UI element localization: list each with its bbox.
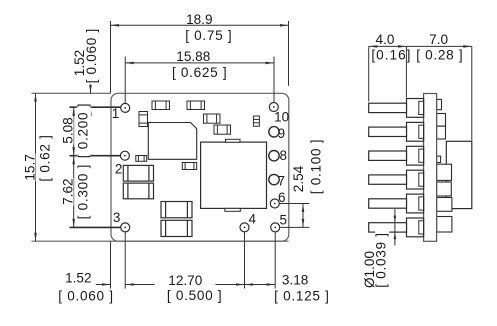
svg-text:7: 7: [277, 173, 285, 188]
svg-text:[ 0.625 ]: [ 0.625 ]: [172, 65, 227, 80]
svg-text:[ 0.100 ]: [ 0.100 ]: [309, 139, 324, 194]
svg-text:[ 0.75 ]: [ 0.75 ]: [185, 28, 232, 43]
svg-text:[ 0.62 ]: [ 0.62 ]: [38, 134, 53, 181]
svg-text:3.18: 3.18: [282, 273, 308, 288]
svg-text:1.52: 1.52: [65, 271, 91, 286]
svg-text:[ 0.039 ]: [ 0.039 ]: [374, 232, 389, 287]
svg-text:15.88: 15.88: [176, 49, 210, 64]
svg-text:2.54: 2.54: [291, 165, 306, 192]
svg-text:[0.16]: [0.16]: [371, 47, 411, 62]
svg-text:7.0: 7.0: [429, 32, 448, 47]
svg-text:[ 0.500 ]: [ 0.500 ]: [167, 288, 222, 303]
svg-text:[ 0.28 ]: [ 0.28 ]: [416, 47, 463, 62]
svg-text:3: 3: [113, 210, 121, 225]
svg-text:[ 0.060 ]: [ 0.060 ]: [84, 28, 99, 83]
svg-text:5.08: 5.08: [61, 117, 76, 143]
svg-text:4: 4: [249, 211, 257, 226]
svg-text:6: 6: [278, 190, 286, 205]
svg-text:[ 0.200 ]: [ 0.200 ]: [75, 103, 90, 158]
svg-text:5: 5: [280, 213, 288, 228]
svg-text:7.62: 7.62: [61, 178, 76, 204]
svg-text:2: 2: [115, 162, 123, 177]
svg-text:[ 0.125 ]: [ 0.125 ]: [274, 289, 329, 304]
svg-text:1: 1: [112, 106, 120, 121]
svg-text:15.7: 15.7: [23, 154, 38, 180]
svg-text:[ 0.300 ]: [ 0.300 ]: [75, 164, 90, 219]
svg-text:4.0: 4.0: [376, 32, 395, 47]
svg-text:9: 9: [278, 126, 286, 141]
svg-text:18.9: 18.9: [186, 12, 212, 27]
svg-text:10: 10: [274, 109, 289, 124]
svg-text:8: 8: [279, 148, 287, 163]
svg-text:12.70: 12.70: [168, 273, 202, 288]
svg-text:[ 0.060 ]: [ 0.060 ]: [58, 289, 113, 304]
